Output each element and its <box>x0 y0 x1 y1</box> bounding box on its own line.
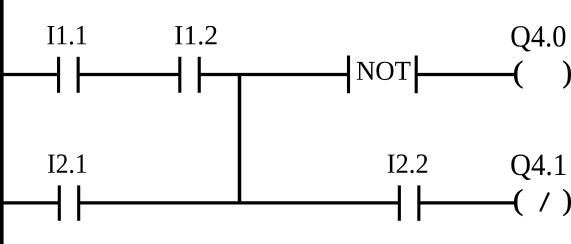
wire rung1: I1.2 to NOT element <box>199 73 348 76</box>
wire rung1: I1.1 to I1.2 <box>78 73 180 76</box>
coil Q4.1 (negated) <box>514 189 571 216</box>
wire rung2: I2.2 to coil Q4.1 <box>419 201 516 204</box>
contact I1.1 <box>59 57 79 93</box>
label Q4.1 <box>511 155 565 181</box>
wire rung1: rail to contact I1.1 <box>0 73 59 76</box>
NOT element U1 <box>349 56 417 94</box>
left power rail <box>0 0 4 244</box>
wire rung2: I2.1 to I2.2 <box>79 201 400 204</box>
wire rung2: rail to contact I2.1 <box>0 201 59 204</box>
label I2.2 <box>388 154 428 173</box>
contact I2.2 <box>399 185 419 220</box>
contact I1.2 <box>180 57 199 93</box>
label I1.1 <box>47 26 86 45</box>
label I2.1 <box>48 154 86 173</box>
wire rung1: NOT to coil Q4.0 <box>416 73 515 76</box>
label Q4.0 <box>511 26 565 52</box>
label I1.2 <box>175 26 217 45</box>
contact I2.1 <box>59 185 78 220</box>
branch wire: node after I1.2 down to rung2 <box>238 73 242 205</box>
coil Q4.0 <box>514 61 571 89</box>
